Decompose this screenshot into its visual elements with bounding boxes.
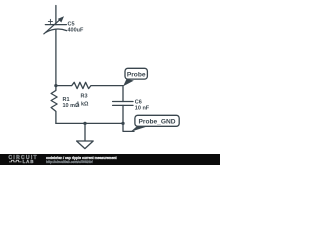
svg-text:R1: R1 — [63, 97, 70, 103]
svg-text:10 nF: 10 nF — [135, 105, 150, 111]
svg-text:http://circuitlab.com/c/5662tb: http://circuitlab.com/c/5662tbf — [46, 160, 94, 164]
svg-text:Probe_GND: Probe_GND — [138, 118, 175, 125]
svg-text:R3: R3 — [81, 94, 88, 100]
svg-text:1 kΩ: 1 kΩ — [76, 102, 89, 108]
svg-text:400uF: 400uF — [68, 27, 85, 33]
svg-text:LAB: LAB — [23, 159, 35, 164]
svg-text:Probe: Probe — [127, 71, 146, 78]
